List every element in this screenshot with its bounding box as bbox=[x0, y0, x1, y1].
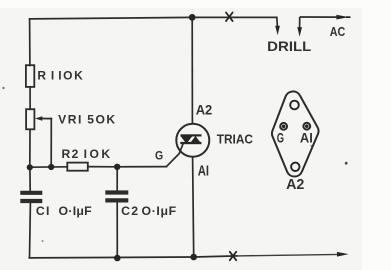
node dot top (triac/top wire junction) bbox=[189, 14, 196, 21]
resistor R1 bbox=[26, 65, 34, 87]
node dot C2 top junction bbox=[114, 164, 120, 170]
wire left vertical (top to R1) bbox=[29, 19, 31, 66]
package mounting hole top bbox=[290, 101, 299, 110]
package mounting hole bottom bbox=[291, 163, 299, 171]
svg-text:RI: RI bbox=[37, 69, 54, 83]
wire R1 to VR1 bbox=[29, 87, 31, 109]
svg-text:AC: AC bbox=[330, 24, 346, 39]
svg-text:VRI: VRI bbox=[58, 113, 81, 127]
wire drill terminal 1 (down arrow) bbox=[275, 17, 280, 35]
triac package outline (TO-3 case) bbox=[272, 91, 319, 176]
svg-text:AI: AI bbox=[198, 164, 209, 180]
node dot C2 bottom junction bbox=[114, 255, 121, 262]
svg-text:CI: CI bbox=[36, 204, 50, 218]
wire bottom horizontal bbox=[29, 256, 237, 258]
capacitor C1 bbox=[22, 193, 40, 201]
stray speck bottom bbox=[42, 240, 44, 242]
svg-text:C2: C2 bbox=[121, 204, 138, 218]
wire R2 right bbox=[88, 166, 117, 168]
capacitor C2 bbox=[107, 193, 126, 201]
svg-text:O·IμF: O·IμF bbox=[142, 204, 177, 218]
svg-text:A2: A2 bbox=[196, 102, 213, 118]
package pin A1 bbox=[303, 123, 310, 130]
stray speck left margin bbox=[2, 87, 4, 89]
VR1 wiper arrow bbox=[35, 116, 51, 121]
X break mark top bbox=[226, 13, 233, 22]
X break mark bottom bbox=[230, 252, 236, 260]
stray ink speck bbox=[345, 162, 348, 165]
node dot left (VR1 bottom / R2 row) bbox=[27, 164, 33, 170]
wire bottom right (to AC return arrow) bbox=[237, 254, 339, 256]
potentiometer VR1 bbox=[26, 109, 34, 129]
wire C2 top lead bbox=[116, 167, 118, 191]
wire drill terminal 2 (down arrow) bbox=[297, 17, 302, 37]
arrowhead bottom right (AC return) bbox=[337, 252, 349, 257]
stray tick near A1 bbox=[311, 145, 312, 147]
wire VR1 bottom to node bbox=[29, 129, 31, 167]
wire C2 bottom lead bbox=[116, 203, 118, 258]
svg-text:O·IμF: O·IμF bbox=[59, 204, 93, 218]
svg-text:G: G bbox=[155, 150, 163, 163]
resistor R2 bbox=[67, 163, 88, 171]
svg-text:R2: R2 bbox=[62, 147, 79, 161]
wire gate diagonal bbox=[166, 144, 183, 167]
package pin G bbox=[280, 123, 287, 130]
wire AC (right arrow) bbox=[300, 15, 351, 20]
wire top horizontal bbox=[30, 17, 277, 19]
node dot triac bottom junction bbox=[190, 254, 197, 261]
wire triac anode2 vertical bbox=[191, 17, 193, 122]
triac symbol bars and triangles bbox=[180, 134, 201, 144]
wire R2 row left bbox=[30, 166, 68, 168]
wire C1 top lead bbox=[29, 167, 31, 191]
svg-text:5OK: 5OK bbox=[87, 113, 115, 127]
svg-text:G: G bbox=[277, 131, 284, 146]
node dot wiper junction bbox=[48, 164, 54, 170]
wire VR1 wiper down bbox=[50, 119, 52, 167]
svg-text:A2: A2 bbox=[286, 177, 304, 193]
svg-text:DRILL: DRILL bbox=[267, 39, 311, 54]
wire gate horizontal bbox=[117, 166, 166, 168]
wire C1 bottom lead bbox=[29, 203, 32, 258]
svg-text:AI: AI bbox=[300, 131, 313, 146]
triac circle bbox=[176, 124, 209, 157]
wire triac anode1 vertical bbox=[193, 158, 194, 257]
svg-text:TRIAC: TRIAC bbox=[217, 133, 253, 147]
